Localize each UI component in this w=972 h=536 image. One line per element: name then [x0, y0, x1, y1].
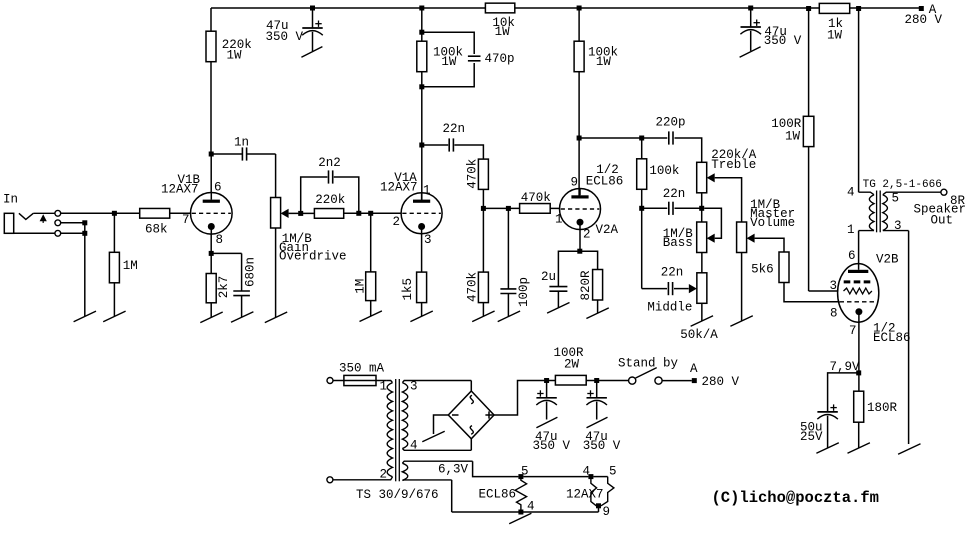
svg-text:470p: 470p [485, 52, 515, 66]
svg-text:3: 3 [830, 279, 838, 293]
node A terminal 280V [905, 3, 943, 27]
svg-text:280 V: 280 V [702, 375, 740, 389]
potentiometer 1M/B Master Volume [737, 198, 796, 253]
svg-text:6: 6 [214, 180, 222, 194]
svg-text:TG 2,5-1-666: TG 2,5-1-666 [863, 179, 942, 191]
ground 100p [498, 311, 520, 322]
svg-text:12AX7: 12AX7 [161, 182, 199, 196]
bridge AC marks [470, 395, 473, 434]
svg-text:350 V: 350 V [764, 34, 802, 48]
svg-text:ECL86: ECL86 [586, 174, 624, 188]
node 1M input junction [112, 211, 117, 216]
wire middle pot bottom [701, 303, 703, 321]
svg-text:ECL86: ECL86 [873, 331, 911, 345]
resistor 220k series [314, 193, 345, 218]
ground middle pot [691, 316, 713, 327]
svg-text:1: 1 [380, 380, 388, 394]
node heater center tap 9 [596, 503, 610, 519]
resistor 68k grid stopper [140, 208, 191, 236]
ground volume pot [730, 316, 752, 327]
ground gain pot [265, 312, 287, 323]
svg-text:68k: 68k [145, 222, 168, 236]
svg-text:7,9V: 7,9V [830, 360, 861, 374]
resistor 820R V2A cathode [579, 251, 603, 313]
svg-text:(C)licho@poczta.fm: (C)licho@poczta.fm [712, 489, 879, 507]
resistor 2k7 cathode [206, 274, 231, 318]
svg-text:2: 2 [393, 215, 401, 229]
svg-text:1W: 1W [596, 55, 612, 69]
node divider junction [481, 206, 520, 211]
wire tone node drop [641, 208, 643, 288]
resistor 1M V1A grid [354, 213, 376, 316]
bridge plus label [485, 411, 492, 418]
capacitor 100p filter [500, 208, 531, 316]
heater 12AX7 right [601, 477, 614, 506]
svg-text:2: 2 [583, 228, 591, 242]
ground 680n [231, 312, 253, 323]
resistor 100R 2W [554, 346, 587, 385]
svg-text:3: 3 [410, 380, 418, 394]
resistor 100k 1W V1A plate load [417, 41, 463, 71]
svg-text:22n: 22n [663, 187, 686, 201]
svg-text:3: 3 [894, 219, 902, 233]
wire B+ rail [211, 7, 919, 9]
svg-text:8: 8 [830, 307, 838, 321]
svg-text:6,3V: 6,3V [438, 463, 469, 477]
node ECL86 heater pin5 [518, 465, 528, 480]
resistor 100k 1W V2A plate load [574, 41, 618, 71]
node V1B cathode junction [209, 234, 214, 273]
svg-text:350 V: 350 V [583, 439, 621, 453]
wire 100R to V2B screen [809, 147, 838, 291]
svg-text:7: 7 [849, 324, 857, 338]
wire jack ground drop [84, 223, 86, 317]
ground speaker return [898, 444, 920, 455]
resistor 1M input [109, 213, 137, 316]
ground PSU cap 2 [587, 417, 608, 428]
wire 5k6 to V2B grid [784, 283, 839, 302]
capacitor 22n middle [642, 266, 689, 296]
wire rail to OT primary [856, 6, 861, 192]
ground 47u filter 2 [740, 47, 761, 57]
svg-text:1M: 1M [354, 279, 368, 294]
svg-text:4: 4 [847, 186, 855, 200]
wire gain wiper [289, 211, 315, 216]
svg-text:22n: 22n [443, 122, 466, 136]
wire bridge top [470, 381, 472, 392]
svg-text:470k: 470k [465, 159, 479, 189]
resistor 470k divider upper [465, 159, 488, 209]
capacitor 2n2 bright [301, 156, 359, 214]
ground 50u [816, 443, 838, 454]
svg-text:ECL86: ECL86 [479, 488, 517, 502]
svg-text:470k: 470k [465, 272, 479, 302]
wire V2B cathode [830, 322, 862, 391]
resistor 100R 1W screen [771, 116, 814, 146]
ground bridge minus [422, 431, 444, 442]
label copyright [712, 489, 879, 507]
svg-text:1k5: 1k5 [401, 278, 415, 301]
capacitor 47u 350V PSU 2 [583, 381, 621, 453]
wire jack ring [61, 220, 88, 225]
wire secondary return [908, 231, 910, 444]
svg-text:1W: 1W [441, 55, 457, 69]
node A terminal PSU [690, 362, 740, 389]
svg-text:4: 4 [410, 439, 418, 453]
connector speaker terminal [914, 189, 967, 227]
svg-text:8: 8 [216, 233, 224, 247]
svg-text:820R: 820R [579, 270, 593, 301]
tube V2A 1/2 ECL86 triode [555, 163, 623, 242]
fuse 350mA [333, 375, 386, 385]
wire 100R to switch [586, 378, 628, 383]
wire heater to pin5 [593, 465, 616, 479]
svg-text:1: 1 [423, 183, 431, 197]
wire heater run [523, 476, 588, 478]
wire jack tip to grid [61, 212, 140, 214]
svg-text:4: 4 [527, 499, 535, 513]
svg-text:1: 1 [555, 213, 563, 227]
wire plate to tone stack [579, 136, 644, 141]
svg-text:1: 1 [847, 223, 855, 237]
svg-text:In: In [3, 193, 18, 207]
rectifier bridge [448, 391, 494, 439]
capacitor 47u 350V B+ filter [266, 6, 323, 52]
capacitor 47u 350V PSU 1 [533, 381, 571, 453]
ground 47u filter [301, 47, 322, 58]
svg-text:1M: 1M [123, 259, 138, 273]
wire 220k to V1A grid [344, 211, 401, 216]
wire gain pot bottom [275, 228, 277, 317]
svg-text:1W: 1W [827, 29, 843, 43]
svg-text:6: 6 [848, 249, 856, 263]
node 12AX7 heater pin4 [583, 465, 594, 480]
connector mains bottom [327, 477, 333, 483]
svg-text:1W: 1W [495, 25, 511, 39]
connector mains top [327, 378, 333, 384]
transformer TG secondary [883, 191, 947, 232]
wire 6.3V top run [473, 461, 519, 476]
node tone node A [639, 206, 644, 211]
wire rail to 100R [806, 6, 811, 116]
transformer TS 6.3V winding [402, 461, 472, 480]
potentiometer 1M/B Bass [663, 222, 715, 253]
capacitor 470p plate bypass [422, 32, 515, 87]
svg-text:Volume: Volume [750, 216, 795, 230]
svg-text:1n: 1n [234, 135, 249, 149]
potentiometer 50k/A Middle [647, 273, 718, 342]
ground 180R [848, 443, 870, 454]
svg-text:100k: 100k [649, 164, 679, 178]
wire V2A plate chain [577, 6, 582, 197]
resistor 1k5 V1A cathode [401, 234, 427, 316]
svg-text:350 mA: 350 mA [339, 361, 385, 375]
svg-text:Bass: Bass [663, 236, 693, 250]
svg-text:7: 7 [182, 213, 190, 227]
svg-text:280 V: 280 V [905, 13, 943, 27]
resistor 470k divider lower [465, 208, 488, 316]
capacitor 1n coupling [211, 135, 275, 160]
label In [3, 193, 18, 207]
ground heater [509, 513, 531, 524]
wire jack sleeve [14, 231, 88, 236]
capacitor 22n coupling out [422, 122, 484, 159]
ground 2k7 [200, 312, 222, 323]
svg-text:2: 2 [380, 468, 388, 482]
tube V2B 1/2 ECL86 pentode [830, 249, 911, 345]
svg-text:9: 9 [571, 176, 579, 190]
tube V1A 12AX7 triode [380, 171, 442, 247]
svg-text:12AX7: 12AX7 [566, 488, 604, 502]
wire volume wiper [755, 238, 784, 252]
svg-text:180R: 180R [867, 401, 898, 415]
svg-text:V2B: V2B [876, 253, 899, 267]
svg-text:TS 30/9/676: TS 30/9/676 [356, 488, 439, 502]
wire V2A cathode [577, 230, 582, 254]
resistor 180R V2B cathode [854, 391, 898, 448]
svg-text:A: A [690, 362, 698, 376]
wire bass wiper loop [704, 208, 721, 238]
svg-text:2u: 2u [541, 270, 556, 284]
ground 820R [586, 308, 608, 319]
svg-text:5: 5 [892, 191, 900, 205]
svg-text:350 V: 350 V [266, 30, 304, 44]
svg-text:V2A: V2A [596, 223, 619, 237]
wire 1n to gain pot [275, 154, 277, 198]
node V1B plate junction [209, 152, 214, 157]
capacitor 47u 350V B+ filter 2 [740, 6, 801, 51]
svg-text:350 V: 350 V [533, 439, 571, 453]
ground 1M input [103, 311, 125, 322]
resistor 10k 1W decoupling [485, 3, 515, 39]
transformer TG core [877, 191, 881, 233]
heater 12AX7 left [566, 477, 604, 506]
svg-text:100p: 100p [517, 277, 531, 307]
capacitor 50u 25V cathode bypass [800, 373, 859, 448]
ground 1M grid [360, 311, 382, 322]
transformer TS core [396, 379, 400, 481]
switch Stand by [618, 356, 679, 384]
heater ECL86 [479, 477, 535, 514]
svg-text:2k7: 2k7 [217, 276, 231, 299]
wire volume pot bottom [741, 253, 743, 322]
svg-text:25V: 25V [800, 430, 823, 444]
resistor 5k6 grid stopper [751, 252, 789, 283]
jack tip switch arrow [40, 214, 47, 223]
svg-text:470k: 470k [521, 191, 551, 205]
wire V1B plate [210, 154, 212, 200]
svg-text:1W: 1W [785, 129, 801, 143]
wire V1A plate chain [419, 6, 424, 201]
svg-text:Middle: Middle [647, 301, 692, 315]
potentiometer 1M/B Gain Overdrive [271, 198, 347, 264]
transformer TS 30/9/676 primary [333, 380, 439, 502]
svg-text:Out: Out [931, 214, 954, 228]
resistor 470k to V2A grid [520, 191, 560, 213]
ground PSU cap 1 [536, 417, 557, 428]
transformer TS HT secondary [402, 380, 471, 453]
wire treble to bass pot [699, 193, 704, 222]
wire switch to A [662, 380, 692, 382]
potentiometer 220k/A Treble [697, 148, 757, 193]
label 350 mA [339, 361, 385, 375]
capacitor 22n bass [642, 187, 702, 215]
connector input jack [4, 213, 55, 233]
svg-text:5k6: 5k6 [751, 263, 774, 277]
wire treble wiper to volume [715, 178, 742, 222]
svg-text:Stand by: Stand by [618, 356, 679, 370]
svg-text:3: 3 [424, 233, 432, 247]
node filter cap 1 [544, 378, 549, 383]
wire bridge minus to ground [434, 415, 449, 434]
svg-text:220k: 220k [315, 193, 345, 207]
ground input jack [74, 311, 96, 322]
wire OT to V2B plate [858, 231, 860, 264]
resistor 220k 1W plate load [206, 8, 252, 154]
wire bridge bottom [470, 439, 472, 451]
resistor 100k tone [637, 138, 680, 208]
resistor 1k 1W B+ dropper [819, 3, 849, 42]
svg-text:1W: 1W [227, 48, 243, 62]
capacitor 220p treble [642, 116, 702, 163]
svg-text:9: 9 [603, 505, 611, 519]
capacitor 2u cathode bypass [541, 251, 580, 308]
svg-text:220p: 220p [656, 116, 686, 130]
svg-text:50k/A: 50k/A [680, 328, 718, 342]
bridge minus label [452, 414, 459, 416]
tube V1B 12AX7 triode [161, 173, 232, 247]
svg-text:Treble: Treble [711, 158, 756, 172]
capacitor 680n cathode bypass [211, 253, 257, 317]
ground 1k5 [410, 311, 432, 322]
svg-text:Overdrive: Overdrive [279, 250, 347, 264]
svg-text:12AX7: 12AX7 [380, 180, 418, 194]
ground 470k lower [472, 311, 494, 322]
ground 2u [547, 303, 569, 314]
svg-text:2n2: 2n2 [318, 156, 341, 170]
svg-text:4: 4 [583, 465, 591, 479]
transformer TG 2,5-1-666 primary [847, 179, 942, 237]
wire bridge plus to filters [494, 381, 555, 416]
wire bass to middle pot [701, 253, 703, 273]
svg-text:5: 5 [609, 465, 617, 479]
jack contact circles [55, 210, 61, 236]
wire heater return [452, 480, 599, 515]
svg-text:22n: 22n [661, 266, 684, 280]
svg-text:680n: 680n [244, 257, 258, 287]
svg-text:2W: 2W [564, 358, 580, 372]
